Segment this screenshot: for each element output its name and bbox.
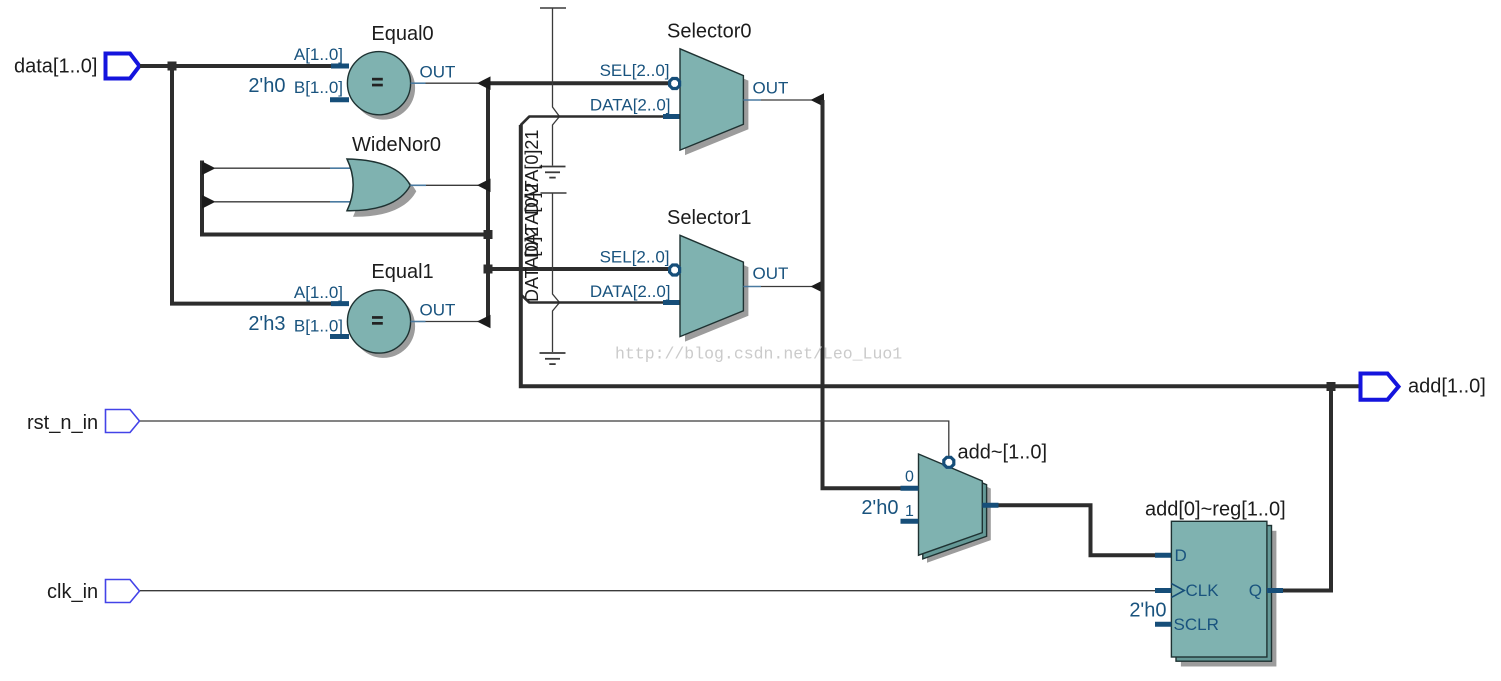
svg-text:A[1..0]: A[1..0] <box>294 283 343 302</box>
wire WideNor0 input 1 <box>214 167 352 169</box>
input port rst_n_in <box>27 410 140 435</box>
stub add~ mux input 1 <box>901 519 919 524</box>
output port add[1..0] <box>1361 374 1486 400</box>
wire WideNor0 OUT <box>410 184 489 186</box>
svg-text:Equal1: Equal1 <box>371 261 433 283</box>
svg-text:rst_n_in: rst_n_in <box>27 412 98 434</box>
arrowhead WideNor0 OUT <box>477 179 491 193</box>
stub Equal1 B <box>330 334 349 339</box>
arrowhead Selector0 OUT <box>811 93 825 107</box>
svg-text:add~[1..0]: add~[1..0] <box>958 442 1048 464</box>
wire SEL Selector0 <box>486 81 669 85</box>
svg-text:2'h3: 2'h3 <box>248 313 285 335</box>
svg-text:SEL[2..0]: SEL[2..0] <box>600 248 670 267</box>
svg-text:Selector1: Selector1 <box>667 207 752 229</box>
clock triangle register <box>1171 584 1184 598</box>
ground symbol Selector1 <box>540 353 566 364</box>
wire DATA Selector1 <box>521 294 681 303</box>
stub Equal0 B <box>330 97 349 102</box>
svg-text:CLK: CLK <box>1186 581 1220 600</box>
stub register Q <box>1267 588 1283 593</box>
svg-text:Selector0: Selector0 <box>667 21 752 43</box>
stub add~ mux input 0 <box>901 486 919 491</box>
junction data bus <box>168 62 177 71</box>
wire SEL Selector1 <box>486 267 669 271</box>
svg-text:OUT: OUT <box>753 79 789 98</box>
mux Selector0 <box>667 21 752 156</box>
svg-text:DATA[2..0]: DATA[2..0] <box>590 96 671 115</box>
svg-text:Q: Q <box>1249 581 1262 600</box>
wire rst_n_in to mux select <box>140 421 949 456</box>
arrowhead Selector1 OUT <box>811 280 825 294</box>
wire selector outputs bus to mux <box>823 100 901 488</box>
arrowhead WideNor0 input 2 <box>202 195 216 209</box>
svg-text:B[1..0]: B[1..0] <box>294 316 343 335</box>
mux add~[1..0] <box>919 442 1048 563</box>
wire DATA bus vertical to add output <box>521 125 1361 386</box>
junction SEL Selector1 <box>484 265 493 274</box>
arrowhead Equal0 OUT <box>477 76 491 90</box>
svg-text:Equal0: Equal0 <box>371 23 433 45</box>
svg-text:A[1..0]: A[1..0] <box>294 45 343 64</box>
svg-text:D: D <box>1175 546 1187 565</box>
wire Selector1 OUT <box>743 286 822 288</box>
svg-text:WideNor0: WideNor0 <box>352 134 441 156</box>
svg-text:DATA[0]21: DATA[0]21 <box>522 130 542 215</box>
input port clk_in <box>47 580 140 604</box>
stub register SCLR <box>1155 622 1171 627</box>
wire Selector0 OUT <box>743 99 822 101</box>
svg-text:data[1..0]: data[1..0] <box>14 56 97 78</box>
svg-text:1: 1 <box>905 503 914 520</box>
svg-text:B[1..0]: B[1..0] <box>294 78 343 97</box>
register add[0]~reg[1..0] <box>1145 499 1286 667</box>
wire add~ mux output to register D <box>982 505 1171 555</box>
wire register Q to add output <box>1283 386 1331 590</box>
bubble select add~ mux <box>944 457 954 467</box>
bubble SEL Selector1 <box>670 265 680 275</box>
wire Equal0 OUT <box>411 82 489 84</box>
gate WideNor0 <box>347 134 441 217</box>
svg-text:add[0]~reg[1..0]: add[0]~reg[1..0] <box>1145 499 1286 521</box>
svg-text:2'h0: 2'h0 <box>248 75 285 97</box>
svg-text:0: 0 <box>905 468 914 485</box>
svg-text:DATA[2..0]: DATA[2..0] <box>590 282 671 301</box>
svg-text:OUT: OUT <box>420 301 456 320</box>
svg-text:SEL[2..0]: SEL[2..0] <box>600 61 670 80</box>
svg-text:2'h0: 2'h0 <box>861 497 898 519</box>
svg-text:SCLR: SCLR <box>1174 615 1219 634</box>
arrowhead Equal1 OUT <box>477 315 491 329</box>
mux Selector1 <box>667 207 752 342</box>
wire clk_in to register CLK <box>140 590 1155 592</box>
junction WideNor0 output bar <box>484 230 493 239</box>
input port data[1..0] <box>14 54 140 79</box>
net gnd stub Selector0 DATA <box>540 8 566 166</box>
stub register CLK <box>1155 588 1171 593</box>
wire data bus horizontal to Equal0 A <box>140 64 349 68</box>
wire WideNor0 input bar <box>202 161 488 235</box>
svg-text:OUT: OUT <box>753 264 789 283</box>
svg-text:http://blog.csdn.net/Leo_Luo1: http://blog.csdn.net/Leo_Luo1 <box>615 345 902 364</box>
svg-text:2'h0: 2'h0 <box>1129 600 1166 622</box>
svg-text:OUT: OUT <box>420 62 456 81</box>
wire WideNor0 input 2 <box>214 201 352 203</box>
arrowhead WideNor0 input 1 <box>202 161 216 175</box>
wire Equal1 OUT <box>411 321 489 323</box>
net gnd stub Selector1 DATA <box>541 193 567 352</box>
op Equal1 <box>347 261 433 358</box>
wire data bus vertical to Equal1 A <box>172 66 349 304</box>
ground symbol Selector0 <box>540 167 566 178</box>
op Equal0 <box>347 23 433 120</box>
node select bus vertical <box>486 83 490 321</box>
bubble SEL Selector0 <box>670 79 680 89</box>
junction add output <box>1327 382 1336 391</box>
wire DATA Selector0 <box>521 116 681 125</box>
svg-text:add[1..0]: add[1..0] <box>1408 376 1486 398</box>
svg-text:clk_in: clk_in <box>47 581 98 603</box>
